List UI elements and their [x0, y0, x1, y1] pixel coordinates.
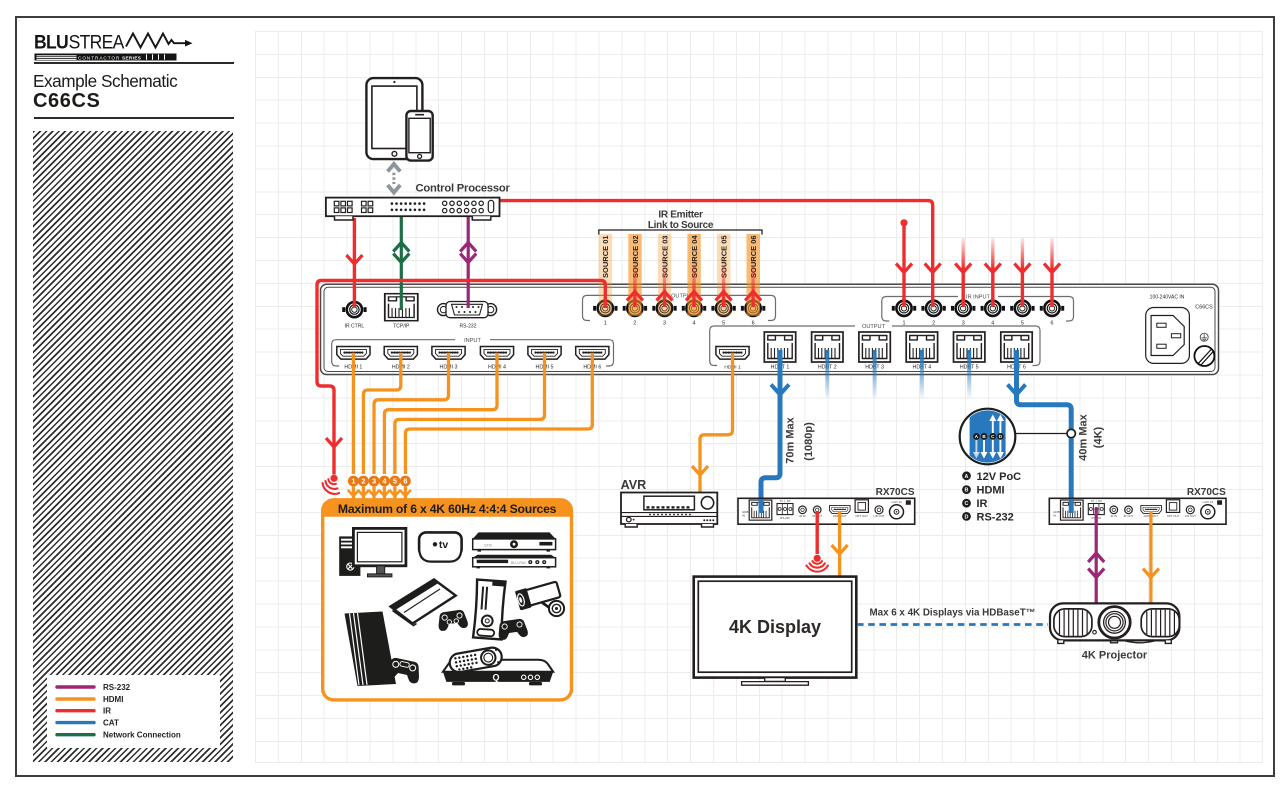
matrix switcher C66CS chassis [321, 284, 1219, 374]
svg-text:Max 6 x 4K Displays via HDBase: Max 6 x 4K Displays via HDBaseT™ [869, 608, 1035, 619]
svg-text:1: 1 [351, 477, 355, 486]
IR emitter near sources [323, 475, 340, 494]
hatch sidebar block [33, 131, 233, 762]
wire hdmi 6 [405, 353, 592, 474]
HDMI output 1 port [716, 347, 749, 360]
legend RS-232 line [57, 685, 94, 688]
wire hdmi 4 [384, 353, 497, 474]
gray sync arrow [388, 164, 401, 193]
svg-text:3: 3 [372, 477, 376, 486]
svg-text:RS-232: RS-232 [977, 511, 1014, 523]
wire hdmi RX1 to display [838, 511, 841, 576]
ABCD legend [962, 471, 1021, 524]
svg-text:(4K): (4K) [1093, 426, 1105, 448]
svg-text:IR INPUT: IR INPUT [966, 295, 991, 301]
svg-text:3: 3 [663, 320, 666, 326]
source bar 4 [687, 234, 700, 316]
wire CAT into RX1 port [759, 499, 764, 513]
source PC tower [339, 536, 360, 576]
legend white box [47, 675, 220, 748]
RX70CS receiver 2 [1049, 498, 1226, 524]
svg-text:100-240VAC IN: 100-240VAC IN [1150, 295, 1185, 301]
arrows into sources box [348, 487, 411, 500]
legend CAT line [57, 721, 94, 724]
bracket under title [599, 230, 762, 235]
svg-text:4K Projector: 4K Projector [1082, 650, 1148, 662]
wire red CP to IR CTRL [353, 218, 356, 308]
legend Network line [57, 733, 94, 736]
svg-text:IR Emitter: IR Emitter [658, 210, 703, 221]
sources box [323, 500, 572, 700]
source blu-ray [473, 555, 556, 569]
wire red CP to IR input 2 [499, 201, 933, 307]
RS-232 DB9 port [438, 302, 497, 318]
svg-text:6: 6 [403, 477, 407, 486]
svg-text:B: B [965, 488, 969, 494]
source STB [473, 532, 556, 551]
INPUT group bracket [332, 340, 614, 366]
source PS3 [391, 580, 456, 626]
svg-text:BLU-RAY: BLU-RAY [511, 561, 527, 565]
RX70CS receiver 1 [738, 498, 915, 524]
wire hdmi RX2 to projector [1149, 511, 1152, 603]
svg-text:1: 1 [604, 320, 607, 326]
IR emitter at display [807, 555, 828, 572]
source apple tv [419, 532, 462, 561]
source PS4 [345, 612, 397, 687]
CAT detail circle [960, 408, 1016, 465]
IR INPUT group bracket [882, 297, 1074, 322]
source sky q box [443, 660, 553, 686]
wire hdmi 3 [374, 353, 449, 474]
source bar 1 [599, 234, 612, 316]
svg-text:TCP/IP: TCP/IP [393, 324, 410, 330]
source camera [515, 580, 564, 617]
svg-text:INPUT: INPUT [464, 338, 481, 344]
wire hdmi 1 [352, 353, 355, 474]
svg-text:Q: Q [492, 672, 499, 682]
source bar 5 [717, 234, 730, 316]
faded CAT stubs hdbt2-5 [827, 350, 969, 398]
wire red bus IR out 1 to emitter [317, 281, 605, 475]
svg-text:C66CS: C66CS [1195, 305, 1213, 311]
wire red RX1 IR out to emitter [816, 511, 819, 554]
svg-text:STB: STB [484, 542, 492, 547]
logo zigzag arrow [126, 34, 186, 48]
IR CTRL jack [342, 302, 366, 317]
source bar 6 [747, 234, 760, 316]
svg-text:(1080p): (1080p) [803, 422, 815, 461]
AVR unit [621, 493, 717, 528]
TCP/IP port [385, 294, 418, 321]
IR OUTPUT group bracket [583, 295, 776, 320]
chassis screw [1194, 346, 1214, 366]
svg-text:IR CTRL: IR CTRL [345, 324, 365, 330]
svg-text:12V PoC: 12V PoC [977, 471, 1022, 483]
4K Display TV [694, 577, 857, 686]
svg-text:40m Max: 40m Max [1078, 413, 1090, 460]
HDBT output ports 1-6 [764, 332, 795, 362]
source PS4 controller [385, 656, 422, 684]
svg-text:A: A [965, 474, 969, 480]
rule under logo [34, 62, 234, 64]
source PS3 controller [437, 609, 469, 632]
svg-text:D: D [965, 514, 969, 520]
faded red wires IR input 3-6 [963, 238, 1052, 307]
ground symbol [1200, 333, 1208, 341]
source bar 3 [658, 234, 671, 316]
HDMI input ports 1-6 [337, 347, 370, 360]
numbered circles 1-6 [348, 476, 411, 487]
source sky remote [448, 646, 503, 673]
wire CAT hdbt6 to RX2 [1017, 350, 1072, 510]
wire green CP to TCP/IP [400, 214, 403, 310]
svg-text:RS-232: RS-232 [460, 324, 477, 330]
wire hdmi 5 [395, 353, 545, 474]
faded red wires IR out 2-6 up arrows [635, 256, 753, 307]
svg-text:70m Max: 70m Max [785, 416, 797, 463]
wire CAT into RX2 port [1069, 499, 1074, 513]
contractor series bar [35, 54, 177, 61]
wire red dot to IR input 1 [900, 219, 907, 226]
wire rs232 RX2 to projector [1095, 508, 1098, 603]
svg-text:tv: tv [439, 539, 448, 551]
source bar 2 [628, 234, 641, 316]
svg-text:AVR: AVR [621, 478, 647, 492]
wire CAT hdbt1 to RX1 [761, 350, 780, 510]
source monitor [353, 528, 406, 577]
source xbox controller [497, 618, 529, 641]
title Example Schematic [33, 71, 177, 92]
title C66CS [33, 90, 100, 113]
rule under titles [34, 117, 234, 119]
svg-text:4: 4 [693, 320, 696, 326]
svg-text:Control Processor: Control Processor [416, 183, 511, 195]
legend HDMI line [57, 697, 94, 700]
svg-text:RX70CS: RX70CS [876, 487, 915, 498]
100-240VAC IN power inlet [1146, 295, 1190, 364]
IR output jacks 1-6 [593, 301, 617, 316]
legend IR line [57, 709, 94, 712]
svg-text:IR: IR [977, 498, 988, 510]
source bar labels [601, 235, 758, 278]
wire hdmi out to AVR [700, 353, 733, 492]
OUTPUT group bracket [710, 326, 1040, 366]
phone [406, 111, 432, 161]
svg-text:6: 6 [1051, 320, 1054, 326]
svg-text:HDMI: HDMI [977, 485, 1005, 497]
dashed CAT display to projector [857, 623, 1048, 626]
tablet [366, 78, 422, 159]
blustream logo [34, 30, 244, 64]
svg-text:5: 5 [393, 477, 397, 486]
svg-text:RX70CS: RX70CS [1187, 487, 1226, 498]
wire hdmi 2 [363, 353, 400, 474]
IR input jacks 1-6 [892, 301, 916, 316]
svg-text:SOURCE 01: SOURCE 01 [601, 235, 610, 278]
background grid [255, 31, 1263, 763]
svg-text:OUTPUT: OUTPUT [862, 324, 886, 330]
wire purple CP to RS-232 [467, 214, 470, 308]
svg-text:Maximum of 6 x 4K 60Hz 4:4:4 S: Maximum of 6 x 4K 60Hz 4:4:4 Sources [338, 502, 557, 516]
4K projector [1050, 603, 1179, 643]
svg-text:C: C [965, 501, 969, 507]
svg-text:2: 2 [633, 320, 636, 326]
svg-text:2: 2 [361, 477, 365, 486]
svg-text:4K Display: 4K Display [729, 617, 821, 637]
source xbox [473, 580, 505, 640]
control processor unit [326, 198, 500, 220]
node on CAT wire [1015, 433, 1066, 435]
